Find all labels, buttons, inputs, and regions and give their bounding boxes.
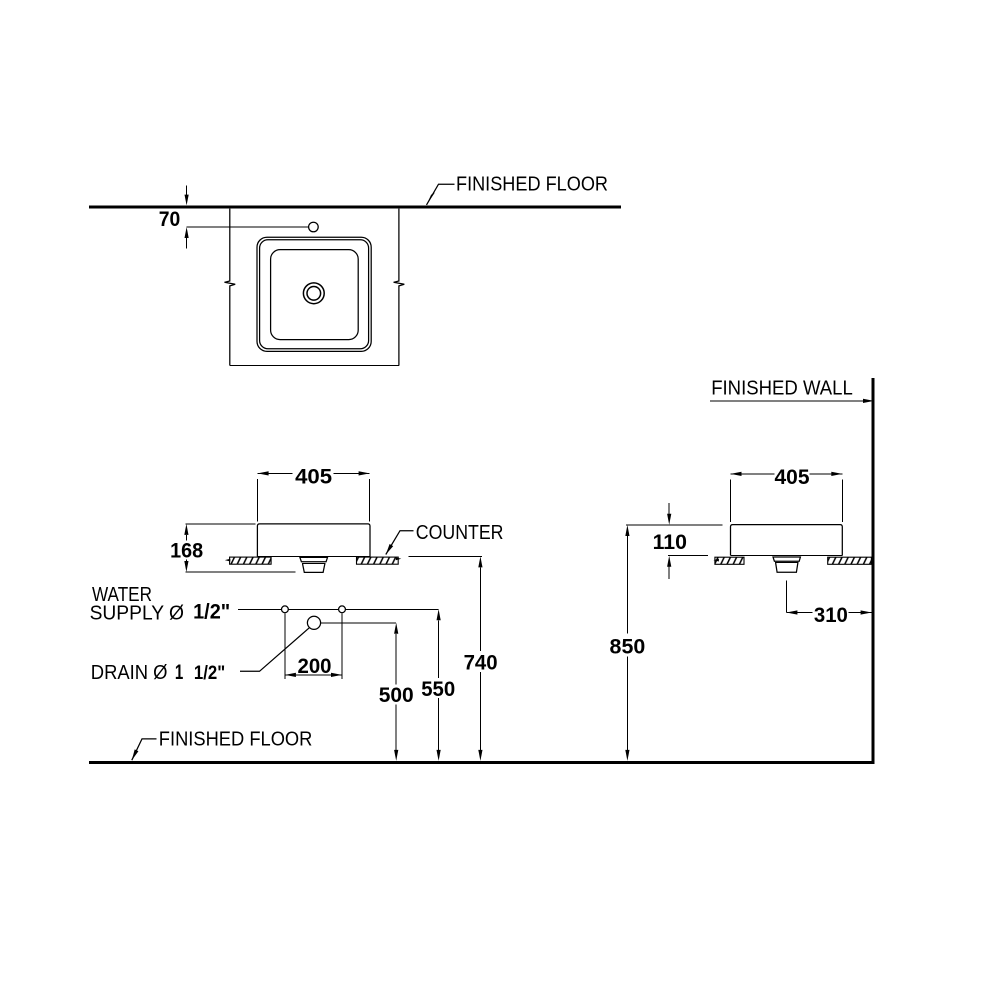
dim 850 shafts and arrows [626, 536, 628, 634]
FINISHED WALL underline leader [710, 400, 864, 402]
dim 110 shafts and arrows [668, 503, 670, 514]
finished floor line (bottom, thick) [89, 761, 875, 764]
dim 200 extension lines [284, 614, 286, 679]
water supply hole right [339, 606, 346, 613]
dim 740 shafts and arrows [479, 567, 481, 650]
svg-text:COUNTER: COUNTER [416, 522, 504, 544]
svg-text:310: 310 [814, 604, 848, 627]
svg-text:1/2": 1/2" [193, 601, 230, 624]
dim 740 extension line [409, 555, 482, 557]
svg-text:740: 740 [464, 652, 498, 675]
finished floor line (plan, thick) [89, 206, 621, 209]
counter hatch strip right (right view) [828, 557, 872, 564]
svg-text:FINISHED FLOOR: FINISHED FLOOR [159, 729, 313, 751]
basin outer rim (plan) [257, 237, 371, 351]
svg-text:500: 500 [379, 684, 414, 707]
svg-text:FINISHED FLOOR: FINISHED FLOOR [456, 174, 608, 196]
counter hatch strip left (left view) [230, 557, 272, 564]
svg-text:FINISHED WALL: FINISHED WALL [711, 378, 853, 400]
svg-text:DRAIN Ø: DRAIN Ø [91, 662, 168, 684]
water supply hole left [282, 606, 289, 613]
extension line counter level (right view) [668, 555, 708, 557]
finished wall line (thick) [872, 378, 875, 764]
svg-text:168: 168 [170, 539, 203, 562]
svg-text:850: 850 [610, 636, 646, 659]
drain trap (right view) [773, 557, 800, 561]
counter edge right (plan, with break) [394, 209, 405, 366]
leader to FINISHED FLOOR (top) [427, 184, 455, 205]
counter hatch strip right (left view) [357, 557, 399, 564]
drain trap (left view) [300, 557, 328, 561]
basin outline (left view) [257, 524, 370, 557]
svg-text:110: 110 [653, 531, 687, 554]
counter edge left (plan, with break) [225, 209, 236, 366]
svg-text:1: 1 [175, 661, 184, 684]
svg-text:SUPPLY Ø: SUPPLY Ø [90, 603, 184, 625]
drain centerline [785, 581, 787, 613]
dim 200 line and arrows [285, 674, 342, 676]
drain hole circle [307, 616, 320, 629]
dim 168 extension lines [185, 523, 255, 525]
dim 405 line (left view) [258, 472, 293, 474]
counter bottom edge (plan) [230, 365, 399, 367]
dim 70 shafts and arrows [186, 186, 188, 197]
dim 405 extension lines (left view) [257, 479, 259, 522]
leader to FINISHED FLOOR (bottom) [132, 739, 157, 760]
basin outline (right view) [731, 525, 843, 556]
drain outer circle (plan) [303, 283, 324, 304]
dim 500 shafts and arrows [395, 634, 397, 685]
faucet hole (plan) [309, 222, 319, 232]
svg-text:1/2": 1/2" [194, 663, 225, 684]
extension line basin-top level (right view) [626, 524, 723, 526]
leader DRAIN [240, 628, 309, 672]
basin bottom / counter top line (left view) [257, 556, 370, 558]
counter hatch strip left (right view) [715, 557, 744, 564]
dim 168 shafts and arrows [185, 535, 187, 541]
svg-text:200: 200 [298, 655, 332, 678]
drain inner circle (plan) [307, 287, 321, 301]
dim 310 line and arrows [786, 612, 812, 614]
leader to COUNTER [386, 531, 414, 555]
drain level line [321, 622, 397, 624]
dim 405 extension lines (right view) [730, 480, 732, 523]
water supply level line [238, 608, 281, 610]
basin bowl (plan) [271, 250, 359, 340]
basin bottom line (right view) [731, 554, 843, 556]
svg-text:550: 550 [421, 678, 455, 701]
basin rim inner line (plan) [260, 240, 369, 349]
svg-text:70: 70 [159, 208, 181, 231]
svg-text:405: 405 [295, 466, 332, 489]
dim 70 extension line [187, 226, 309, 228]
svg-text:405: 405 [775, 466, 810, 489]
dim 405 line (right view) [731, 473, 775, 475]
dim 550 shafts and arrows [438, 620, 440, 678]
